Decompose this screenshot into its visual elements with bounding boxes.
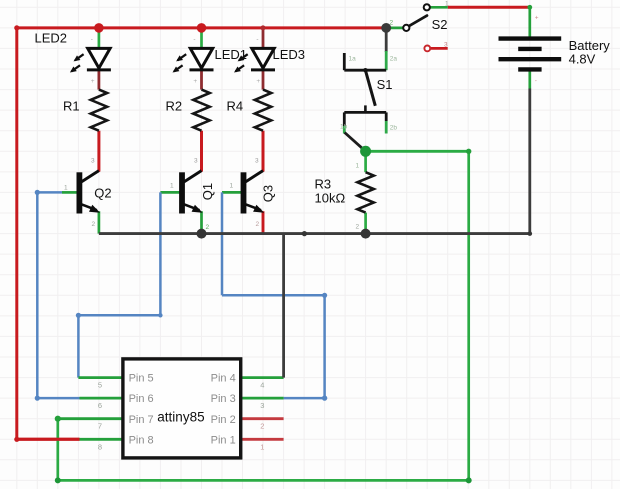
svg-text:S2: S2 xyxy=(432,17,448,32)
svg-text:1: 1 xyxy=(445,1,449,8)
svg-text:+: + xyxy=(91,78,95,85)
svg-text:1b: 1b xyxy=(340,124,348,131)
svg-text:2: 2 xyxy=(256,221,260,228)
svg-text:Pin 5: Pin 5 xyxy=(129,373,154,385)
svg-text:R1: R1 xyxy=(63,99,80,114)
svg-text:1: 1 xyxy=(170,183,174,190)
svg-text:1: 1 xyxy=(230,183,234,190)
svg-text:Pin 8: Pin 8 xyxy=(129,434,154,446)
svg-text:6: 6 xyxy=(98,401,102,410)
svg-text:-: - xyxy=(535,78,537,85)
svg-text:Pin 6: Pin 6 xyxy=(129,393,154,405)
svg-text:R3: R3 xyxy=(315,177,332,192)
svg-text:3: 3 xyxy=(255,158,259,165)
svg-text:-: - xyxy=(193,36,195,43)
svg-text:1: 1 xyxy=(64,185,68,192)
svg-text:Pin 4: Pin 4 xyxy=(211,373,236,385)
svg-text:Q1: Q1 xyxy=(200,183,215,200)
svg-text:2: 2 xyxy=(260,422,264,431)
svg-text:Q2: Q2 xyxy=(94,186,111,201)
svg-text:2a: 2a xyxy=(390,56,398,63)
svg-text:-: - xyxy=(91,36,93,43)
svg-text:3: 3 xyxy=(91,158,95,165)
svg-text:5: 5 xyxy=(98,381,102,390)
svg-text:4: 4 xyxy=(260,381,264,390)
svg-text:S1: S1 xyxy=(377,77,393,92)
svg-text:-: - xyxy=(256,36,258,43)
svg-text:3: 3 xyxy=(444,42,448,49)
svg-text:2b: 2b xyxy=(390,125,398,132)
svg-text:+: + xyxy=(256,78,260,85)
svg-text:10kΩ: 10kΩ xyxy=(315,190,346,205)
svg-text:2: 2 xyxy=(92,221,96,228)
svg-text:7: 7 xyxy=(98,422,102,431)
svg-text:LED2: LED2 xyxy=(35,31,68,46)
svg-text:1: 1 xyxy=(356,163,360,170)
svg-text:2: 2 xyxy=(356,224,360,231)
svg-text:Pin 3: Pin 3 xyxy=(211,393,236,405)
svg-text:8: 8 xyxy=(98,442,102,451)
svg-text:R4: R4 xyxy=(227,99,244,114)
svg-text:2: 2 xyxy=(206,224,210,231)
svg-text:2: 2 xyxy=(390,20,394,27)
svg-text:+: + xyxy=(535,15,539,22)
svg-text:3: 3 xyxy=(260,401,264,410)
svg-text:Pin 1: Pin 1 xyxy=(211,434,236,446)
svg-text:attiny85: attiny85 xyxy=(157,410,204,425)
svg-text:LED1: LED1 xyxy=(215,47,248,62)
svg-text:LED3: LED3 xyxy=(273,47,306,62)
svg-text:Pin 7: Pin 7 xyxy=(129,414,154,426)
svg-text:1: 1 xyxy=(260,442,264,451)
svg-text:4.8V: 4.8V xyxy=(569,51,596,66)
svg-text:R2: R2 xyxy=(166,99,183,114)
svg-text:3: 3 xyxy=(194,158,198,165)
svg-text:1a: 1a xyxy=(349,56,357,63)
svg-text:Pin 2: Pin 2 xyxy=(211,414,236,426)
svg-text:+: + xyxy=(193,78,197,85)
svg-text:Q3: Q3 xyxy=(260,185,275,202)
